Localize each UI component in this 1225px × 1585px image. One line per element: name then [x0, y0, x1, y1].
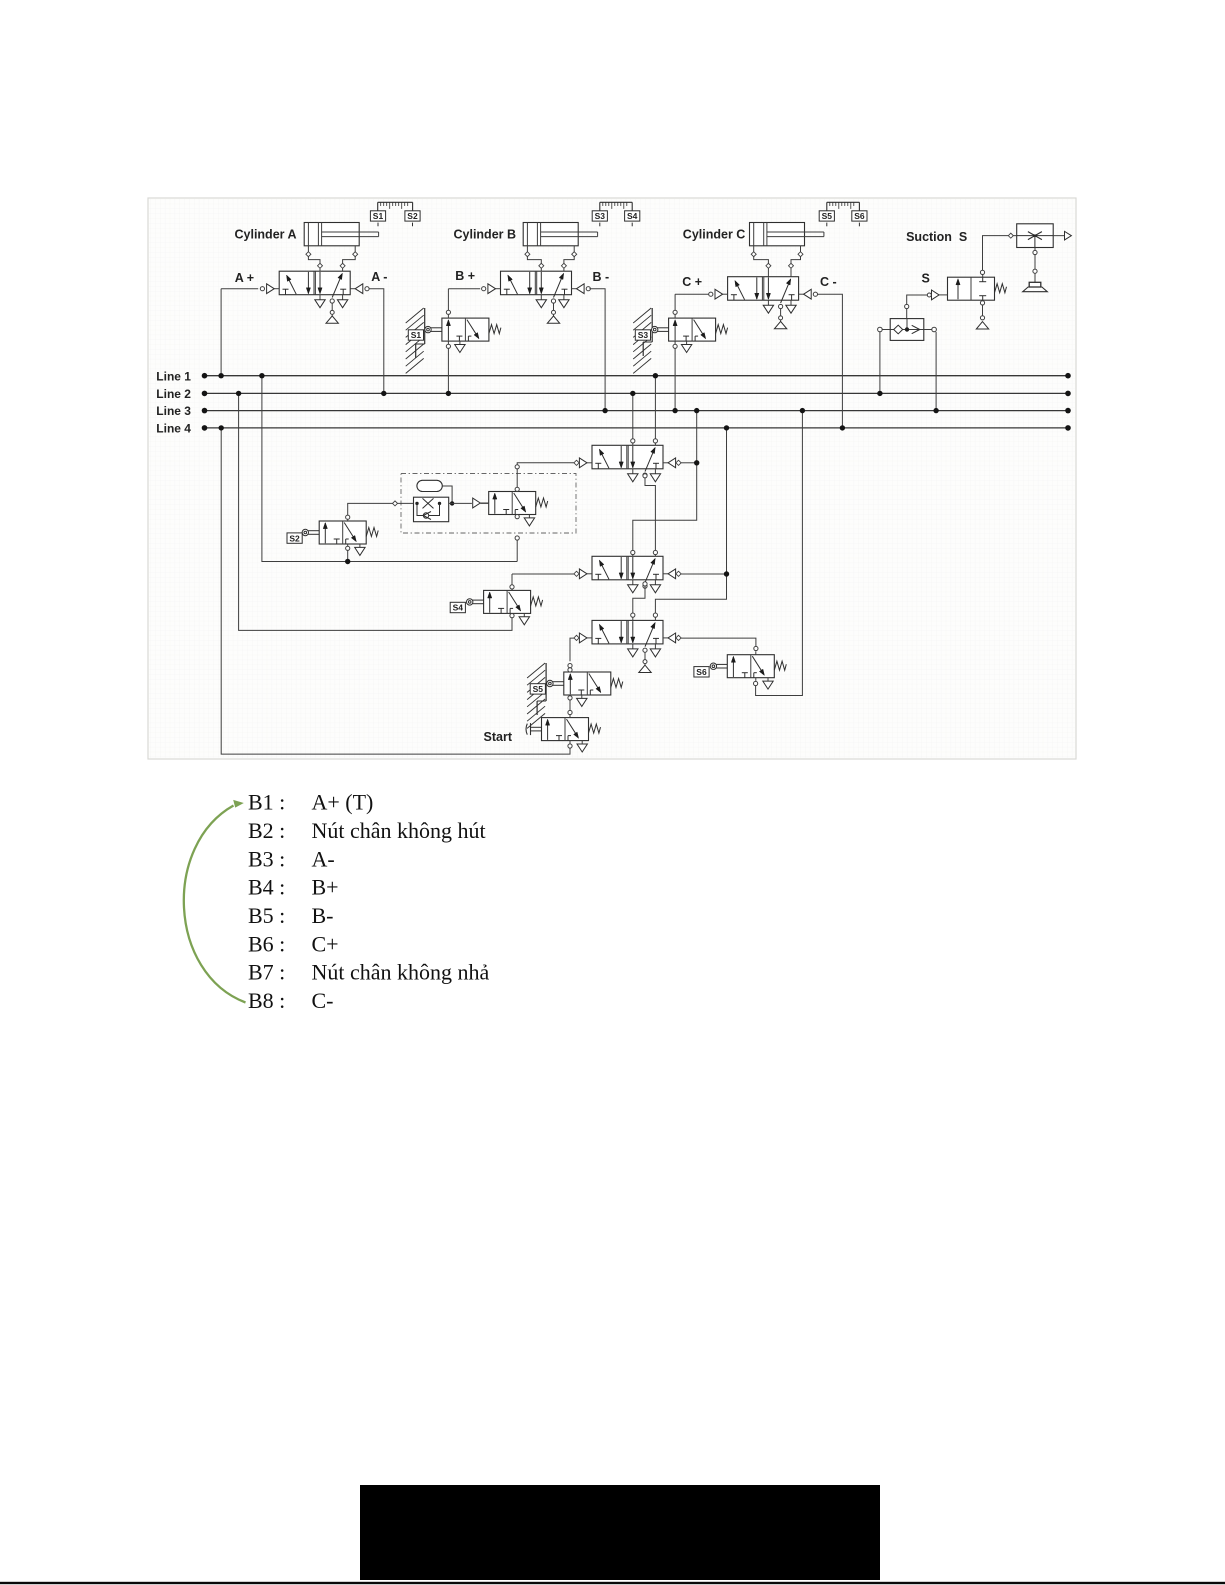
wire [569, 715, 571, 718]
wire suction cup [1033, 248, 1037, 283]
wire S6 supply to Line 3 [756, 411, 803, 696]
wire shuttle right to Line 3 [935, 332, 937, 411]
wire S2 supply [347, 546, 349, 561]
svg-text:B6 :: B6 : [248, 931, 285, 956]
sensor tag S6 [694, 667, 709, 677]
wire V1 port2 to Line 1 [654, 376, 656, 443]
svg-text:B-: B- [312, 903, 334, 928]
wire [449, 502, 472, 504]
footer rule [0, 1582, 1225, 1584]
junctions [218, 373, 938, 577]
svg-text:Nút chân không hút: Nút chân không hút [312, 818, 486, 843]
wire S4 supply to Line 2 [239, 393, 512, 630]
wire V1 port4 to Line 2 [632, 393, 634, 443]
valve T (timer) (3/2) [473, 488, 548, 526]
net Line 2 [156, 387, 1070, 401]
wire Line 3 cascade to V2 port4 [633, 411, 697, 551]
svg-text:B5 :: B5 : [248, 903, 285, 928]
cylinder B [523, 223, 597, 246]
valve VC (5/2 impulse) [709, 277, 818, 329]
wire V1 right pilot [681, 462, 697, 464]
net Line 3 [156, 404, 1070, 418]
sensor tag S2 [287, 533, 302, 543]
wire timer out to V1 pilot [517, 463, 574, 487]
svg-text:Nút chân không nhả: Nút chân không nhả [312, 960, 490, 985]
wire S4 out [511, 574, 513, 585]
wire V1 supply from V2 port2 [645, 478, 655, 551]
wire C+ pilot [675, 293, 709, 295]
timer unit (delay) frame [401, 474, 576, 534]
wire S4 out to V2 left pilot [512, 573, 574, 575]
limit marker S3 [592, 211, 607, 227]
limit marker S5 [819, 211, 834, 227]
wire S5 supply from Start [569, 700, 571, 710]
wire S5 out to V3 left pilot [570, 638, 574, 661]
wire S3 supply to Line 3 [674, 348, 676, 410]
wire [800, 246, 802, 252]
sensor tag S3 [635, 330, 650, 340]
valve V1 (5/2 impulse) [574, 445, 681, 482]
step B2 [248, 818, 486, 843]
step B7 [248, 960, 490, 985]
svg-text:A+ (T): A+ (T) [312, 790, 374, 815]
wall mount [406, 308, 425, 373]
svg-text:A-: A- [312, 846, 335, 871]
valve S1 (3/2) [425, 315, 501, 353]
port nodes [346, 310, 758, 748]
step B6 [248, 931, 339, 956]
shuttle valve (OR) [878, 319, 937, 341]
wire [354, 246, 356, 252]
wire [307, 246, 309, 252]
wire [526, 246, 528, 252]
wire S1 out [447, 289, 449, 311]
wire shuttle left to Line 2 [879, 332, 881, 394]
wire to flow control [983, 236, 1009, 271]
wire S6 out to V3 right pilot [681, 638, 756, 646]
sequence loop arrow [184, 800, 246, 1003]
wire S2 out to timer [348, 503, 393, 516]
valve Start (3/2) [526, 714, 601, 752]
valve S3 (3/2) [652, 315, 728, 353]
wire C- to Line 4 [818, 294, 843, 428]
wire [573, 246, 575, 252]
wire S3 out [674, 294, 676, 310]
step B5 [248, 903, 334, 928]
cylinder A [304, 223, 378, 246]
svg-text:B3 :: B3 : [248, 846, 285, 871]
svg-text:C+: C+ [312, 931, 339, 956]
valve V3 (5/2 impulse) [574, 620, 681, 672]
valve V2 (5/2 impulse) [574, 556, 681, 593]
wire [1008, 233, 1013, 238]
limit marker S4 [625, 211, 640, 227]
step B8 [248, 988, 334, 1013]
wire Start supply to Line 4 [221, 428, 570, 754]
limit marker S6 [852, 211, 867, 227]
wire [753, 246, 755, 252]
svg-text:B2 :: B2 : [248, 818, 285, 843]
wire S1 supply to Line 2 [447, 348, 449, 393]
wire V2 right pilot [681, 573, 727, 575]
air outlet [1053, 231, 1071, 240]
wire [442, 486, 452, 503]
svg-text:B+: B+ [312, 875, 339, 900]
valve S (suction) (3/2) [932, 274, 1007, 304]
wire V2 supply from V3 port4 [633, 586, 645, 613]
sensor tag S5 [530, 684, 545, 694]
wall mount [527, 663, 546, 728]
wire stubs [633, 443, 656, 620]
valve S exhaust [976, 301, 988, 329]
valve S6 (3/2) [710, 651, 786, 689]
valve VB (5/2 impulse) [482, 271, 591, 323]
throttle-check valve [414, 497, 449, 522]
wire A- to Line 2 [369, 289, 384, 394]
wall mount [633, 308, 652, 373]
svg-text:B4 :: B4 : [248, 875, 285, 900]
valve S5 (3/2) [547, 669, 623, 707]
step B1 [248, 790, 373, 815]
wire A+ pilot [221, 288, 258, 290]
net Line 1 [156, 369, 1070, 383]
redacted block [360, 1485, 880, 1580]
limit marker S2 [405, 211, 420, 227]
sensor tag S1 [408, 330, 423, 340]
wire A+ to Line 1 [220, 289, 222, 376]
cylinder C [750, 223, 824, 246]
air reservoir [417, 480, 442, 491]
step B3 [248, 846, 335, 871]
wire Line 1 supply rail [262, 376, 517, 562]
wire Line 4 cascade to V3 port2 [655, 428, 726, 613]
svg-text:B8 :: B8 : [248, 988, 285, 1013]
valve VA (5/2 impulse) [260, 271, 369, 323]
wire B- to Line 3 [589, 289, 605, 411]
step B4 [248, 875, 339, 900]
wire [393, 501, 398, 506]
svg-text:B7 :: B7 : [248, 960, 285, 985]
flow control valve [1017, 224, 1053, 248]
wire timer supply [516, 540, 518, 561]
svg-text:B1 :: B1 : [248, 790, 285, 815]
net Line 4 [156, 422, 1070, 436]
valve S4 (3/2) [467, 587, 543, 625]
limit marker S1 [370, 211, 385, 227]
sensor tag S4 [450, 602, 465, 612]
wire pilot S [905, 293, 932, 319]
wire B+ pilot [448, 288, 480, 290]
suction cup [1023, 282, 1048, 291]
valve S2 (3/2) [302, 518, 378, 556]
svg-text:C-: C- [312, 988, 334, 1013]
